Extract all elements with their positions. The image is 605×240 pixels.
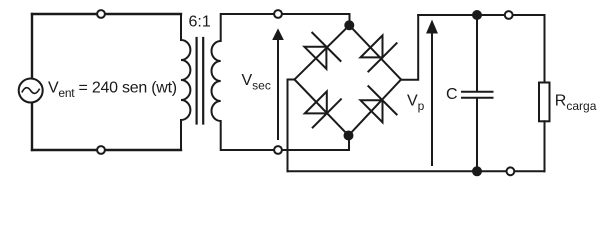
bridge edge bottom-left — [295, 80, 349, 136]
bridge edge top-right — [349, 25, 401, 79]
terminal secondary bottom — [274, 146, 282, 154]
resistor Rcarga — [544, 15, 546, 82]
diode D3 (lower-left) — [305, 91, 327, 113]
arrow Vsec — [277, 37, 279, 139]
wire bottom rail — [288, 170, 545, 172]
label Vsec — [242, 72, 271, 93]
label 6:1 — [189, 14, 211, 31]
wire secondary bottom — [221, 136, 349, 150]
label Vent = 240 sen (wt) — [48, 79, 177, 100]
node capacitor bottom (junction dot) — [472, 166, 482, 176]
wire primary loop top — [32, 13, 181, 15]
label C — [446, 86, 458, 103]
wire secondary top — [221, 14, 350, 25]
transformer secondary winding — [211, 14, 220, 150]
bridge edge bottom-right — [349, 80, 402, 136]
diode D1 (upper-left) — [304, 47, 326, 69]
wire primary loop left — [31, 14, 33, 79]
terminal top-left — [97, 10, 105, 18]
label Vp — [407, 92, 425, 113]
wire top rail — [418, 14, 544, 16]
bridge edge top-left — [295, 25, 350, 79]
capacitor C — [476, 15, 478, 91]
svg-text:6:1: 6:1 — [189, 14, 211, 31]
node top (junction dot) — [344, 20, 354, 30]
transformer primary winding — [181, 14, 190, 150]
node bottom (junction dot) — [344, 131, 354, 141]
arrow Vp — [431, 30, 433, 165]
diode D4 (lower-right) — [361, 100, 383, 122]
wire bridge left vertex to bottom rail — [288, 80, 295, 172]
svg-text:C: C — [446, 86, 458, 103]
source Vent (AC) — [19, 79, 43, 103]
sine wave inside source — [22, 88, 39, 94]
terminal bottom-left — [97, 146, 105, 154]
terminal output top — [505, 11, 513, 19]
diode D2 (upper-right) — [361, 35, 383, 57]
terminal secondary top — [274, 10, 282, 18]
wire primary loop bottom — [32, 149, 181, 151]
wire bridge right vertex to top rail — [401, 15, 418, 80]
node capacitor top (junction dot) — [472, 10, 482, 20]
label Rcarga — [555, 92, 597, 113]
terminal output bottom — [507, 167, 515, 175]
transformer core — [196, 38, 198, 124]
